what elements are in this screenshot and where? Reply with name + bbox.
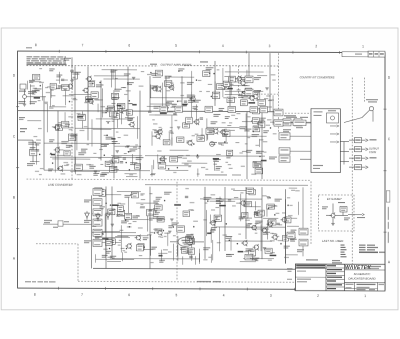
- svg-text:7: 7: [82, 44, 84, 48]
- svg-text:OUTPUT AMPLIFIERS: OUTPUT AMPLIFIERS: [161, 63, 192, 67]
- svg-text:CONN: CONN: [369, 151, 376, 154]
- svg-text:LAST NO. USED: LAST NO. USED: [322, 239, 343, 243]
- svg-text:3: 3: [270, 294, 272, 298]
- svg-text:4: 4: [223, 294, 225, 298]
- svg-text:1: 1: [364, 294, 366, 298]
- svg-text:5: 5: [176, 293, 178, 297]
- svg-text:1: 1: [362, 45, 364, 49]
- svg-text:8: 8: [35, 43, 37, 47]
- svg-text:6: 6: [128, 44, 130, 48]
- svg-text:3: 3: [269, 44, 271, 48]
- svg-text:4: 4: [222, 44, 224, 48]
- svg-text:DAUGHTER BOARD: DAUGHTER BOARD: [348, 277, 375, 281]
- svg-text:B: B: [13, 196, 15, 200]
- svg-text:7: 7: [81, 293, 83, 297]
- svg-text:EX GASSET: EX GASSET: [327, 197, 342, 201]
- svg-text:2: 2: [315, 45, 317, 49]
- svg-text:6: 6: [128, 293, 130, 297]
- svg-text:5: 5: [175, 44, 177, 48]
- svg-text:LINE CONVERTER: LINE CONVERTER: [48, 183, 73, 187]
- svg-text:8: 8: [34, 293, 36, 297]
- svg-text:2: 2: [317, 294, 319, 298]
- svg-text:COUNTRY KIT CONVERTERS: COUNTRY KIT CONVERTERS: [300, 77, 335, 80]
